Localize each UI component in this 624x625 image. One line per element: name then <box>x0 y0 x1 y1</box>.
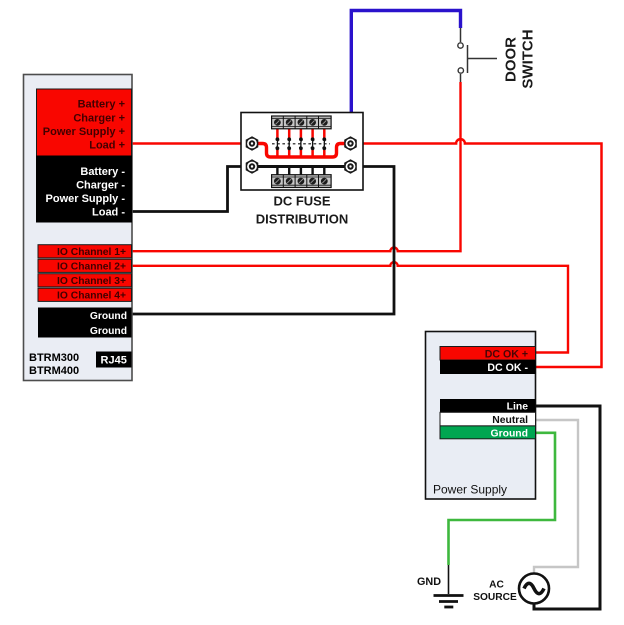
wire Load+ (red, module to fuse block) <box>131 142 252 145</box>
svg-text:IO Channel 3+: IO Channel 3+ <box>57 276 126 287</box>
ground symbol <box>434 596 464 608</box>
svg-text:DC OK +: DC OK + <box>485 348 528 360</box>
terminal block Ground/Ground (black) <box>38 308 132 338</box>
power supply enclosure <box>426 332 536 500</box>
fuse gang tie (dashed) <box>272 143 330 145</box>
svg-text:IO Channel 1+: IO Channel 1+ <box>57 247 126 258</box>
wire Ground (green, power supply to earth ground) <box>449 433 556 565</box>
wire blue (fuse output up to door switch) <box>351 11 460 141</box>
terminal block Battery-/Charger-/PowerSupply-/Load- (black) <box>37 156 132 222</box>
terminal DC OK - (black) <box>440 360 536 374</box>
svg-text:Power Supply: Power Supply <box>433 483 507 497</box>
black ground bus <box>252 165 351 168</box>
hex terminal output + (right red) <box>344 136 357 151</box>
svg-text:BTRM300BTRM400: BTRM300BTRM400 <box>29 352 79 377</box>
svg-text:Ground: Ground <box>490 428 528 439</box>
terminal IO Channel 2+ <box>38 259 132 272</box>
svg-text:DOOR: DOOR <box>503 37 520 82</box>
top terminal strip <box>272 116 332 129</box>
label RJ45 <box>96 352 132 368</box>
wire IO Channel 2+ (red, hops black wire, to DC OK+) <box>132 262 569 352</box>
AC source <box>519 574 549 604</box>
fuse F1 <box>276 137 280 150</box>
hex terminal output - (right black) <box>344 159 357 174</box>
svg-text:Neutral: Neutral <box>492 415 528 426</box>
bottom terminal strip <box>272 175 332 188</box>
fuse F2 <box>287 137 291 150</box>
svg-text:IO Channel 2+: IO Channel 2+ <box>57 262 126 273</box>
svg-text:DC FUSEDISTRIBUTION: DC FUSEDISTRIBUTION <box>256 194 348 227</box>
wire Load- (black, module to fuse block) <box>132 167 252 212</box>
wire Neutral (gray, power supply to AC source) <box>534 420 578 574</box>
svg-text:GND: GND <box>417 576 441 588</box>
hex terminal input - (left black) <box>246 159 259 174</box>
svg-text:RJ45: RJ45 <box>101 355 127 367</box>
fuse F4 <box>311 137 315 150</box>
terminal DC OK + (red) <box>440 347 536 361</box>
wire IO Channel 1+ (red, hops black wire at x394, up to door switch) <box>132 82 461 251</box>
terminal Neutral (white) <box>440 412 536 426</box>
terminal block Battery+/Charger+/PowerSupply+/Load+ (red) <box>37 89 132 156</box>
wire Line (black, power supply to AC source) <box>534 406 600 609</box>
wire ground bus to module Ground (black) <box>132 167 395 315</box>
hex terminal input + (left red) <box>246 136 259 151</box>
wire earth lead (thin black) <box>448 565 450 594</box>
terminal Ground (green) <box>440 426 536 440</box>
svg-text:Line: Line <box>507 402 529 413</box>
wire fuse output to DC OK- (red, hops door-switch wire at x460) <box>351 139 602 367</box>
fuse return wires (black, bus to bottom strip) <box>277 166 324 176</box>
fuse feeder wires (red, strip to fuses to bus) <box>277 126 324 157</box>
module BTRM300/BTRM400 enclosure <box>24 75 133 381</box>
terminal IO Channel 3+ <box>38 274 132 287</box>
DC fuse distribution box <box>241 113 363 191</box>
label DOOR SWITCH (rotated) <box>503 29 537 88</box>
svg-text:SWITCH: SWITCH <box>520 29 537 88</box>
svg-text:IO Channel 4+: IO Channel 4+ <box>57 291 126 302</box>
fuse F3 <box>299 137 303 150</box>
svg-text:ACSOURCE: ACSOURCE <box>473 580 517 604</box>
svg-text:DC OK -: DC OK - <box>487 362 528 374</box>
terminal Line (black) <box>440 399 536 413</box>
red distribution bus <box>252 144 351 158</box>
door switch S1 <box>458 28 497 82</box>
fuse F5 <box>322 137 326 150</box>
terminal IO Channel 4+ <box>38 288 132 301</box>
terminal IO Channel 1+ <box>38 245 132 258</box>
